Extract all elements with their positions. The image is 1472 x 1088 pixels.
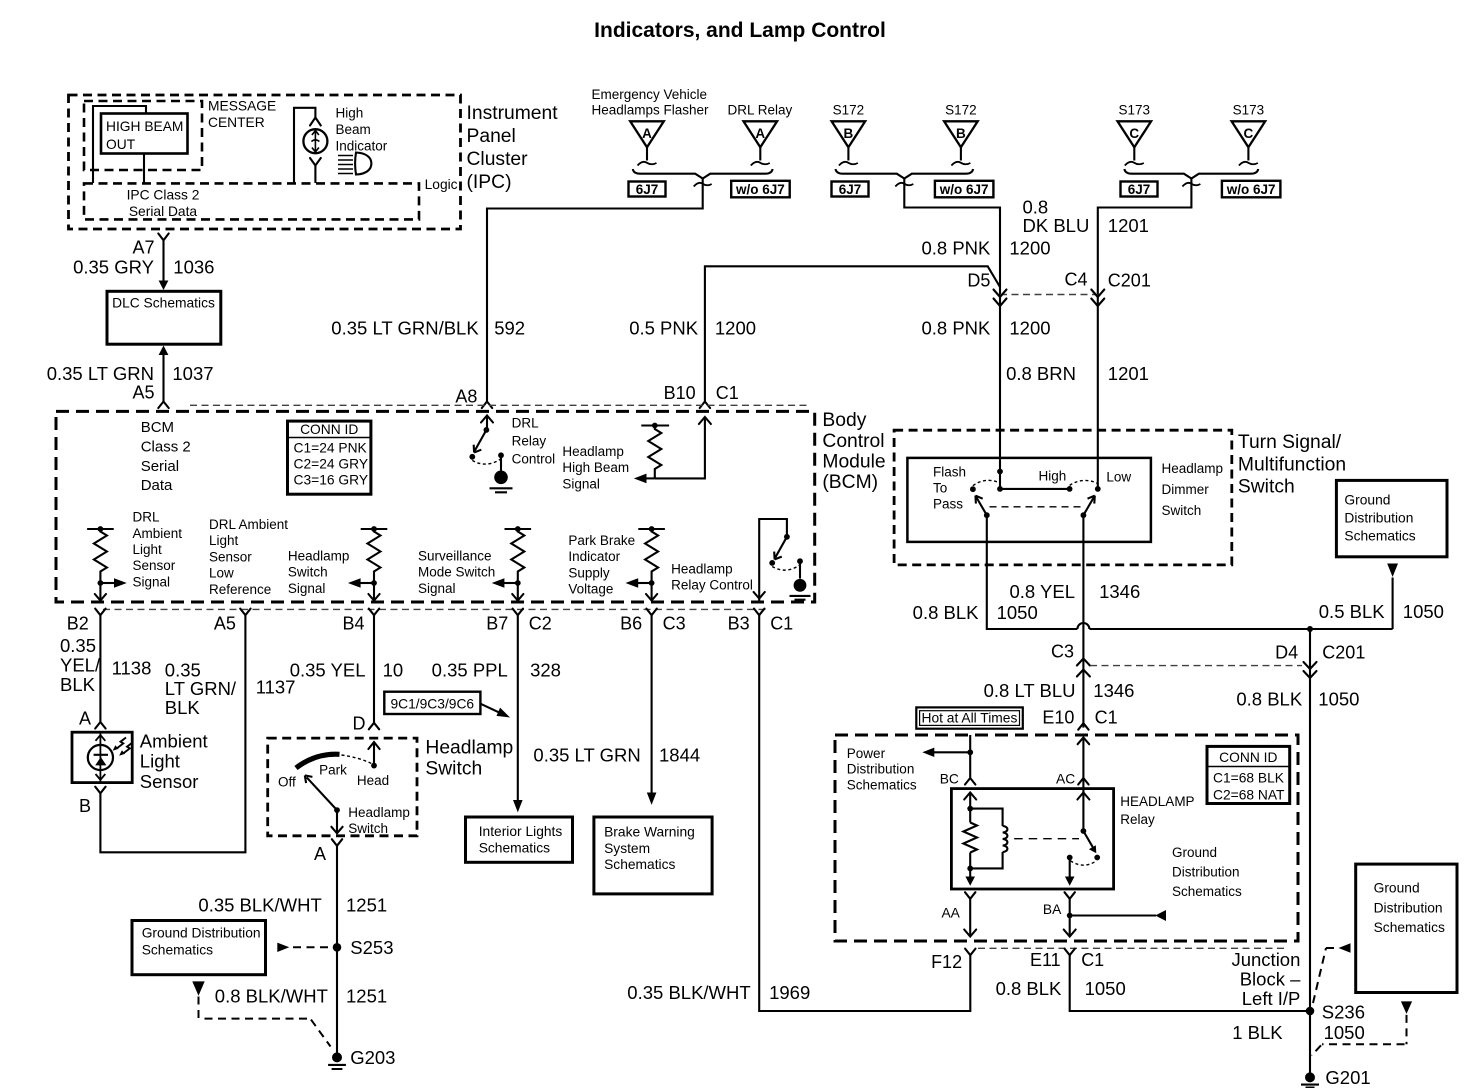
6J7 box (B) xyxy=(832,182,869,197)
coil bottom node dot xyxy=(967,866,973,872)
relay switch contact dots xyxy=(1067,855,1073,861)
svg-text:E10: E10 xyxy=(1042,708,1074,728)
svg-text:Signal: Signal xyxy=(562,476,600,491)
svg-text:BLK: BLK xyxy=(165,697,201,718)
pin B2 fork xyxy=(95,609,105,616)
down arrow below box xyxy=(1401,1001,1412,1014)
E11 inside arrow xyxy=(1064,930,1076,937)
svg-text:B2: B2 xyxy=(67,614,89,634)
rotary switch dashed arc Park-Head xyxy=(342,755,372,764)
svg-text:A: A xyxy=(755,126,765,141)
svg-text:Serial Data: Serial Data xyxy=(129,204,198,219)
svg-text:B6: B6 xyxy=(620,614,642,634)
connector chevron below indicator xyxy=(310,158,321,166)
svg-text:0.8 BLK: 0.8 BLK xyxy=(996,978,1062,999)
svg-text:1050: 1050 xyxy=(997,602,1038,623)
headlamp relay control travel arc xyxy=(772,565,800,570)
DRL relay ground bars xyxy=(490,488,513,492)
relay coil winding xyxy=(1003,826,1008,852)
svg-text:C3: C3 xyxy=(663,614,686,634)
svg-text:1037: 1037 xyxy=(172,363,213,384)
BA reference arrow xyxy=(1070,914,1156,916)
BCM bottom connector dashed face xyxy=(103,608,770,610)
svg-text:C: C xyxy=(1244,126,1254,141)
svg-text:Indicator: Indicator xyxy=(568,549,620,564)
svg-text:0.35 YEL: 0.35 YEL xyxy=(290,659,366,680)
6J7 box (A) xyxy=(629,182,666,197)
IPC Class 2 Serial Data dashed logic box xyxy=(84,183,419,219)
svg-text:Park: Park xyxy=(319,763,347,778)
B10 inside arrow xyxy=(699,417,711,424)
svg-text:Junction: Junction xyxy=(1231,949,1300,970)
svg-text:HEADLAMP: HEADLAMP xyxy=(1120,794,1194,809)
svg-text:1 BLK: 1 BLK xyxy=(1232,1022,1283,1043)
svg-text:Light: Light xyxy=(140,751,180,772)
headlamp icon lens xyxy=(355,153,371,175)
CONN ID table (junction block) xyxy=(1207,746,1290,803)
svg-text:1251: 1251 xyxy=(346,895,387,916)
wire E11 to S236 xyxy=(1070,955,1310,1011)
svg-text:E11: E11 xyxy=(1030,950,1061,970)
svg-text:Module: Module xyxy=(822,452,885,473)
svg-text:S173: S173 xyxy=(1233,102,1265,117)
svg-text:1050: 1050 xyxy=(1318,689,1359,710)
svg-text:Block –: Block – xyxy=(1240,968,1301,989)
pin A5 fork (BCM bottom) xyxy=(240,609,250,616)
dimmer pivot dots xyxy=(984,512,990,518)
CONN ID table (BCM) xyxy=(288,421,371,494)
svg-text:1050: 1050 xyxy=(1085,978,1126,999)
arrowhead up into DLC box xyxy=(159,346,169,356)
svg-text:1036: 1036 xyxy=(173,257,214,278)
9C1/9C3/9C6 box xyxy=(384,692,480,714)
connector C201 dashed face (bottom) xyxy=(1090,665,1302,667)
ground G201 xyxy=(1305,1072,1315,1082)
ambient light sensor box xyxy=(72,732,132,782)
svg-text:0.35 LT GRN: 0.35 LT GRN xyxy=(47,363,154,384)
DRL relay control switch lever xyxy=(474,430,487,453)
svg-text:Distribution: Distribution xyxy=(1172,865,1240,880)
wire 10 B4 to headlamp switch xyxy=(373,615,375,722)
svg-text:0.35: 0.35 xyxy=(165,659,201,680)
wire 1137 sensor B to BCM A5 xyxy=(100,615,245,852)
F12 pin fork xyxy=(965,949,975,956)
travel arc FTP to feed xyxy=(973,480,1000,485)
svg-text:1200: 1200 xyxy=(1009,238,1050,259)
svg-text:328: 328 xyxy=(530,659,561,680)
wire 1201 from C brace down-left xyxy=(1098,179,1192,489)
svg-text:A7: A7 xyxy=(132,238,154,258)
photodiode cathode bar xyxy=(94,754,108,756)
svg-text:Ground: Ground xyxy=(1374,881,1420,896)
junction block bottom connector dashed face xyxy=(978,947,1285,949)
BC pin fork at relay xyxy=(965,778,975,785)
svg-text:To: To xyxy=(933,481,947,496)
HIGH BEAM OUT box xyxy=(101,114,188,154)
splice S236 dot xyxy=(1306,1007,1315,1016)
svg-text:Low: Low xyxy=(1106,469,1131,484)
dashed link S236 to box xyxy=(1313,948,1338,1003)
svg-text:C2=24 GRY: C2=24 GRY xyxy=(294,457,369,472)
svg-text:C2: C2 xyxy=(529,614,552,634)
svg-text:1050: 1050 xyxy=(1403,601,1444,622)
DRL relay ground stem xyxy=(500,455,502,470)
brace under A pair xyxy=(633,169,773,179)
surveillance mode switch signal resistor xyxy=(505,526,532,586)
switch Head contact stem xyxy=(373,742,375,766)
svg-text:MESSAGE: MESSAGE xyxy=(208,99,276,114)
svg-text:AC: AC xyxy=(1056,771,1075,786)
svg-text:Supply: Supply xyxy=(568,565,610,580)
svg-text:C1: C1 xyxy=(1095,708,1118,728)
svg-text:Voltage: Voltage xyxy=(568,582,613,597)
svg-text:Switch: Switch xyxy=(348,821,388,836)
svg-text:1050: 1050 xyxy=(1324,1022,1365,1043)
svg-text:A: A xyxy=(314,844,326,864)
headlamp relay control ground bars xyxy=(790,596,811,600)
DRL relay control switch stem xyxy=(486,416,488,430)
svg-text:C1=24 PNK: C1=24 PNK xyxy=(294,441,368,456)
harness hook at C brace xyxy=(1182,183,1200,187)
svg-text:Distribution: Distribution xyxy=(1374,900,1443,915)
svg-text:Headlamp: Headlamp xyxy=(671,562,733,577)
svg-text:0.35 BLK/WHT: 0.35 BLK/WHT xyxy=(198,895,321,916)
svg-text:Relay: Relay xyxy=(512,434,547,449)
svg-text:D: D xyxy=(353,714,366,734)
arrowhead toward S236 xyxy=(1339,943,1351,952)
svg-text:Reference: Reference xyxy=(209,582,271,597)
pin B3 fork xyxy=(754,609,764,616)
svg-text:S173: S173 xyxy=(1119,102,1151,117)
headlamp relay control contact dots xyxy=(769,560,775,566)
arrowhead into brake warning box xyxy=(647,793,657,805)
B7 exit wire and inside arrow xyxy=(517,583,519,601)
svg-text:F12: F12 xyxy=(931,952,962,972)
BCM top connector dashed face xyxy=(190,404,810,406)
connector triangle A (Emergency Vehicle Headlamps Flasher) xyxy=(630,121,664,165)
high contact bar xyxy=(1000,472,1070,489)
indicator stem to logic box xyxy=(314,166,316,184)
DRL relay control travel arc xyxy=(472,459,501,464)
pin B7 fork xyxy=(513,609,523,616)
brake warning system schematics box xyxy=(594,817,712,894)
svg-text:DRL: DRL xyxy=(512,415,539,430)
AA exit arrow xyxy=(965,877,975,886)
6J7 box (C) xyxy=(1121,182,1158,197)
AC inside arrow xyxy=(1077,793,1089,800)
ground G203 xyxy=(332,1052,342,1062)
switch pin D fork xyxy=(369,723,379,730)
svg-text:0.35 PPL: 0.35 PPL xyxy=(432,659,508,680)
svg-text:A5: A5 xyxy=(214,614,236,634)
A8 inside arrow xyxy=(481,416,493,423)
headlamp icon rays xyxy=(338,156,353,174)
relay switch travel arc xyxy=(1071,861,1097,865)
relay coil branch wires xyxy=(970,793,1002,877)
switch exit stem and inside arrow xyxy=(336,812,338,833)
sensor pin B fork xyxy=(95,787,105,794)
svg-text:Surveillance: Surveillance xyxy=(418,549,492,564)
svg-text:Dimmer: Dimmer xyxy=(1162,482,1210,497)
svg-text:1200: 1200 xyxy=(715,317,756,338)
DLC Schematics box xyxy=(107,291,221,344)
F12 inside arrow xyxy=(964,930,976,937)
sensor internal up arrow xyxy=(96,735,106,741)
travel arc High to Low xyxy=(1070,480,1098,485)
svg-text:Indicator: Indicator xyxy=(336,139,388,154)
svg-text:Beam: Beam xyxy=(336,122,371,137)
svg-text:0.8 BLK/WHT: 0.8 BLK/WHT xyxy=(215,986,328,1007)
DRL relay control switch pivot xyxy=(484,427,490,433)
down arrow below box xyxy=(192,981,204,995)
svg-text:Multifunction: Multifunction xyxy=(1238,454,1346,475)
wire 1037 xyxy=(162,355,164,402)
pin A8 fork xyxy=(482,402,492,409)
svg-text:1201: 1201 xyxy=(1108,215,1149,236)
interior lights schematics box xyxy=(466,817,573,862)
relay coil resistor zigzag xyxy=(963,823,977,853)
high beam indicator branch wires xyxy=(294,108,315,183)
svg-text:G203: G203 xyxy=(350,1047,395,1068)
wire stub below HIGH BEAM OUT xyxy=(143,154,145,184)
svg-text:C3=16 GRY: C3=16 GRY xyxy=(294,473,369,488)
B2 exit wire and inside arrow xyxy=(99,583,101,601)
BC inside arrow xyxy=(964,793,976,800)
headlamp switch signal resistor xyxy=(361,526,388,586)
svg-text:Class 2: Class 2 xyxy=(141,438,191,455)
B6 exit wire and inside arrow xyxy=(651,583,653,601)
connector triangle A (DRL Relay) xyxy=(744,121,778,165)
DRL relay control contact dots xyxy=(469,454,475,460)
wire 1969 B3 to F12 xyxy=(759,615,970,1011)
svg-text:C1: C1 xyxy=(1081,950,1104,970)
svg-text:0.35 LT GRN/BLK: 0.35 LT GRN/BLK xyxy=(331,317,479,338)
relay switch feed xyxy=(1082,789,1084,831)
sensor photodiode circle xyxy=(88,745,113,770)
relay coil-switch link dashed xyxy=(1014,838,1079,840)
sensor internal down arrow xyxy=(96,774,106,780)
sensor internal stem xyxy=(99,732,101,783)
svg-text:Sensor: Sensor xyxy=(140,771,199,792)
wire 1346 dimmer low to E10 xyxy=(1082,515,1084,727)
svg-text:w/o 6J7: w/o 6J7 xyxy=(1226,182,1276,197)
svg-text:Schematics: Schematics xyxy=(479,841,550,856)
svg-text:0.8 PNK: 0.8 PNK xyxy=(921,317,991,338)
connector triangle C (S173) xyxy=(1118,121,1152,165)
svg-text:D5: D5 xyxy=(967,271,990,291)
svg-text:Sensor: Sensor xyxy=(209,549,252,564)
svg-text:BC: BC xyxy=(940,771,959,786)
brace under C pair xyxy=(1124,169,1258,179)
dashed route to G203 xyxy=(199,997,331,1047)
svg-text:(BCM): (BCM) xyxy=(822,472,878,493)
headlamp high beam signal resistor xyxy=(641,423,669,479)
svg-text:Power: Power xyxy=(847,746,886,761)
svg-text:0.8 BLK: 0.8 BLK xyxy=(1236,689,1302,710)
svg-text:Instrument: Instrument xyxy=(467,103,559,124)
svg-text:B3: B3 xyxy=(728,614,750,634)
svg-text:Hot at All Times: Hot at All Times xyxy=(922,711,1018,726)
svg-text:Schematics: Schematics xyxy=(847,777,917,792)
incident light bolt 2 xyxy=(124,743,133,754)
svg-text:A: A xyxy=(642,126,652,141)
connector C201 dashed face (top) xyxy=(1000,294,1098,296)
svg-text:Headlamp: Headlamp xyxy=(562,444,624,459)
junction block dashed box xyxy=(835,735,1298,941)
surveillance signal arrow left xyxy=(504,582,518,584)
svg-text:B: B xyxy=(956,126,966,141)
high beam signal arrow left xyxy=(646,477,655,479)
E10 inside arrow xyxy=(1078,738,1090,745)
svg-text:DRL Ambient: DRL Ambient xyxy=(209,517,288,532)
svg-text:A8: A8 xyxy=(455,387,477,407)
svg-text:Mode Switch: Mode Switch xyxy=(418,565,495,580)
svg-text:B4: B4 xyxy=(342,614,364,634)
svg-text:IPC Class 2: IPC Class 2 xyxy=(127,188,200,203)
svg-text:Ground: Ground xyxy=(1344,493,1390,508)
high beam indicator lamp circle xyxy=(303,129,327,153)
svg-text:Distribution: Distribution xyxy=(847,762,915,777)
svg-text:Brake Warning: Brake Warning xyxy=(604,825,695,840)
brace under B pair xyxy=(836,169,974,179)
arrow from box to S253 xyxy=(277,943,289,952)
svg-text:B: B xyxy=(79,796,91,816)
svg-text:Schematics: Schematics xyxy=(604,857,675,872)
svg-text:CONN ID: CONN ID xyxy=(1219,750,1277,765)
w/o 6J7 box (C) xyxy=(1222,181,1281,198)
svg-text:Signal: Signal xyxy=(418,581,456,596)
svg-text:w/o 6J7: w/o 6J7 xyxy=(939,182,989,197)
svg-text:OUT: OUT xyxy=(106,137,136,152)
svg-text:Off: Off xyxy=(278,774,296,789)
svg-text:Light: Light xyxy=(133,542,163,557)
svg-text:0.5 BLK: 0.5 BLK xyxy=(1319,601,1385,622)
svg-text:C1: C1 xyxy=(716,383,739,403)
Hot at All Times box xyxy=(916,707,1023,728)
svg-text:0.8 BLK: 0.8 BLK xyxy=(913,602,979,623)
wire E10 to relay AC xyxy=(1082,738,1084,789)
connector triangle C (S173) xyxy=(1232,121,1266,165)
pin A5 fork at BCM xyxy=(158,402,168,409)
pin B6 fork xyxy=(646,609,656,616)
svg-text:DRL Relay: DRL Relay xyxy=(728,102,793,117)
harness hook at A brace xyxy=(694,183,712,187)
svg-text:Light: Light xyxy=(209,533,239,548)
svg-text:0.35 GRY: 0.35 GRY xyxy=(73,257,154,278)
svg-text:Relay Control: Relay Control xyxy=(671,578,753,593)
svg-text:1844: 1844 xyxy=(659,745,700,766)
svg-text:0.8 LT BLU: 0.8 LT BLU xyxy=(984,680,1076,701)
AA pin fork below relay xyxy=(965,892,975,899)
svg-text:B: B xyxy=(844,126,854,141)
pin A7 fork xyxy=(158,234,168,241)
svg-text:Ambient: Ambient xyxy=(133,526,183,541)
svg-text:Interior Lights: Interior Lights xyxy=(479,824,563,839)
svg-text:592: 592 xyxy=(494,317,525,338)
low contact dot xyxy=(1095,486,1101,492)
E11 pin fork xyxy=(1065,949,1075,956)
svg-text:Ground: Ground xyxy=(1172,845,1217,860)
svg-text:HIGH BEAM: HIGH BEAM xyxy=(106,119,183,134)
svg-text:Ground Distribution: Ground Distribution xyxy=(142,926,261,941)
wire 1251 switch to G203 xyxy=(336,846,338,1058)
arrowhead into interior lights box xyxy=(513,800,523,812)
headlamp relay control lever xyxy=(774,537,787,560)
svg-text:B7: B7 xyxy=(486,614,508,634)
park brake arrow left xyxy=(638,582,652,584)
svg-text:Ambient: Ambient xyxy=(140,731,208,752)
svg-text:BA: BA xyxy=(1043,902,1062,917)
BC tap dot xyxy=(967,749,973,755)
AC pin fork at relay xyxy=(1078,778,1088,785)
down arrow below box xyxy=(1387,564,1398,578)
ground distribution schematics box (bottom right) xyxy=(1356,864,1457,992)
svg-text:Logic: Logic xyxy=(425,177,458,192)
turn signal dashed box xyxy=(894,430,1232,565)
high beam feed node dot xyxy=(997,469,1003,475)
wire 1036 xyxy=(162,240,164,281)
harness hook at B brace xyxy=(895,183,913,187)
svg-text:B10: B10 xyxy=(664,383,696,403)
svg-text:0.5 PNK: 0.5 PNK xyxy=(629,317,699,338)
svg-text:CONN ID: CONN ID xyxy=(300,422,358,437)
D4 crossing chevrons xyxy=(1304,662,1317,678)
DRL ambient light sensor signal resistor xyxy=(87,526,114,586)
svg-text:C3: C3 xyxy=(1051,642,1074,662)
photodiode triangle xyxy=(95,757,106,765)
svg-text:Switch: Switch xyxy=(1162,503,1202,518)
E10 pin fork xyxy=(1078,723,1088,730)
svg-text:Headlamp: Headlamp xyxy=(425,738,513,759)
arrowhead into DLC box xyxy=(159,281,169,291)
w/o 6J7 box (A) xyxy=(731,181,790,198)
svg-text:6J7: 6J7 xyxy=(1128,182,1151,197)
w/o 6J7 box (B) xyxy=(935,181,994,198)
wire 592 from A brace down-left to BCM pin A8 xyxy=(487,179,703,402)
svg-text:Headlamp: Headlamp xyxy=(288,549,350,564)
wire 1138 B2 to sensor xyxy=(99,615,101,721)
BA pin fork below relay xyxy=(1065,892,1075,899)
svg-text:0.8 BRN: 0.8 BRN xyxy=(1006,363,1076,384)
svg-text:C201: C201 xyxy=(1322,643,1365,663)
Head contact dot xyxy=(371,763,377,769)
rotary switch thick arc Off-Park xyxy=(296,754,340,768)
wire 1200 from B brace down-right to D5 xyxy=(904,179,1000,472)
headlamp relay control ground ball xyxy=(794,579,807,592)
connector chevron above indicator xyxy=(310,118,321,126)
svg-text:S236: S236 xyxy=(1322,1002,1365,1023)
svg-text:1201: 1201 xyxy=(1108,363,1149,384)
svg-text:Control: Control xyxy=(822,431,884,452)
svg-text:Low: Low xyxy=(209,566,234,581)
dimmer linkage dashed xyxy=(990,506,1083,508)
svg-text:Left I/P: Left I/P xyxy=(1242,988,1301,1009)
arrow to power distribution xyxy=(932,751,970,753)
svg-text:0.8 YEL: 0.8 YEL xyxy=(1010,581,1076,602)
dimmer lever right xyxy=(1083,496,1094,516)
svg-text:C4: C4 xyxy=(1064,270,1087,290)
svg-text:BLK: BLK xyxy=(60,674,96,695)
C3 crossing chevrons xyxy=(1077,659,1090,677)
wire 1050 dimmer to junction (with hop) xyxy=(987,515,1393,629)
node at D4 drop xyxy=(1307,626,1313,632)
svg-text:Sensor: Sensor xyxy=(133,558,176,573)
svg-text:A: A xyxy=(79,708,91,728)
message center dashed box xyxy=(84,101,202,170)
ground distribution schematics box (left) xyxy=(132,921,266,975)
splice S253 dot xyxy=(333,943,342,952)
svg-text:6J7: 6J7 xyxy=(636,182,659,197)
